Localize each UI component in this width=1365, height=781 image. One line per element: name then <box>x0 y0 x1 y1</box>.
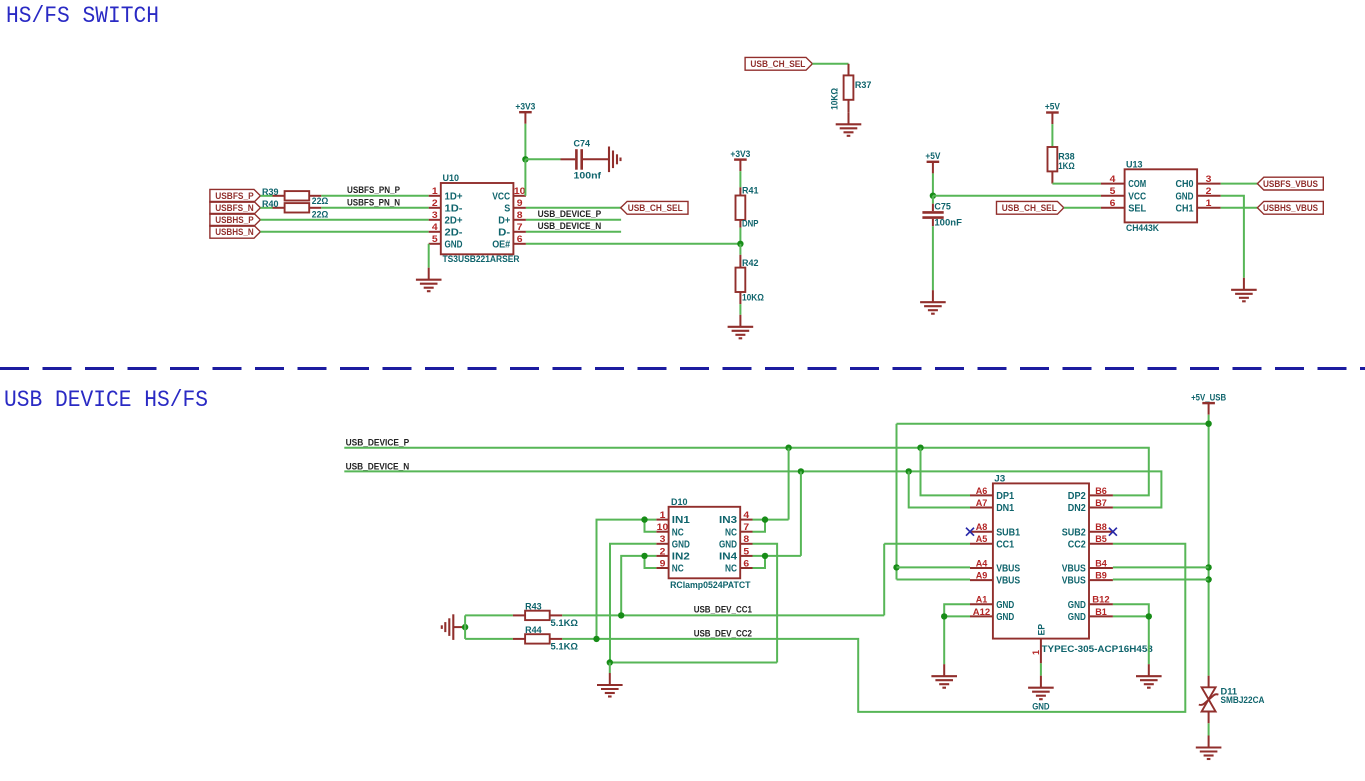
wire to A9 VBUS <box>897 579 971 581</box>
resistor R37 <box>844 75 854 99</box>
connector J3 body TYPEC-305-ACP16H458 <box>993 483 1089 638</box>
resistor R39 right lead <box>309 195 321 197</box>
capacitor C75 <box>922 212 943 217</box>
J3 pin B8 SUB2 <box>1062 522 1113 538</box>
resistor R39 left lead <box>273 195 285 197</box>
svg-text:2: 2 <box>660 546 666 556</box>
svg-text:A7: A7 <box>976 498 988 508</box>
U13 pin 1 CH1 <box>1176 198 1221 214</box>
hierarchical label USBFS_N <box>210 201 261 214</box>
wire <box>932 173 934 195</box>
hierarchical label USB_CH_SEL at R37 <box>745 57 812 70</box>
svg-text:GND: GND <box>996 600 1014 611</box>
diode D11 bottom lead <box>1208 712 1210 724</box>
IC U10 body TS3USB221ARSER <box>441 183 514 254</box>
svg-text:+3V3: +3V3 <box>730 149 750 160</box>
J3 pin A6 DP1 <box>970 486 1015 502</box>
svg-text:5.1KΩ: 5.1KΩ <box>551 618 579 629</box>
junction <box>593 636 599 642</box>
svg-text:3: 3 <box>660 534 666 544</box>
junction <box>607 659 613 665</box>
wire <box>524 124 526 160</box>
wire USB_DEV_CC1 <box>562 614 884 616</box>
svg-text:HS/FS SWITCH: HS/FS SWITCH <box>6 3 159 30</box>
svg-text:100nf: 100nf <box>574 171 602 182</box>
power +3V3 above U10 <box>515 101 535 123</box>
svg-text:SMBJ22CA: SMBJ22CA <box>1221 695 1265 706</box>
wire IN2 to CC1 <box>621 556 656 616</box>
wire D10 pin10 NC hook <box>645 520 657 532</box>
wire <box>526 207 621 209</box>
svg-text:VBUS: VBUS <box>996 576 1020 587</box>
hierarchical label USBHS_VBUS <box>1257 201 1323 214</box>
resistor R42 top lead <box>739 255 741 268</box>
wire D10 GND right <box>753 544 778 663</box>
wire USB_DEVICE_N to DN2 <box>344 471 1161 507</box>
svg-text:5: 5 <box>1110 186 1116 196</box>
ground below J3 left <box>931 664 957 688</box>
svg-text:R37: R37 <box>855 80 872 91</box>
wire <box>739 304 741 315</box>
U10 pin 9 S <box>504 198 526 214</box>
J3 pin A8 SUB1 <box>970 522 1021 538</box>
ground below U13 <box>1231 278 1257 302</box>
wire IN3 <box>753 519 789 521</box>
svg-text:GND: GND <box>672 539 690 550</box>
resistor R40 <box>285 203 310 212</box>
svg-text:9: 9 <box>660 558 666 568</box>
ground below D10 <box>597 673 623 697</box>
svg-text:GND: GND <box>445 239 463 250</box>
resistor R41 top lead <box>739 187 741 195</box>
wire +5V_USB vertical <box>1208 415 1210 676</box>
wire to B9 VBUS <box>1113 579 1209 581</box>
hierarchical label USB_CH_SEL at U10 <box>621 201 688 214</box>
wire <box>739 244 741 255</box>
svg-text:B4: B4 <box>1095 558 1107 568</box>
junction <box>906 468 912 474</box>
D10 pin 9 NC <box>656 558 684 574</box>
svg-text:B5: B5 <box>1095 534 1107 544</box>
svg-text:USBHS_VBUS: USBHS_VBUS <box>1263 203 1318 214</box>
svg-text:U10: U10 <box>443 173 460 184</box>
resistor R37 bottom lead <box>848 100 850 113</box>
svg-text:NC: NC <box>672 564 684 575</box>
wire D10 pin9 NC hook <box>645 556 657 568</box>
svg-text:10: 10 <box>657 522 669 532</box>
ground left of R43 R44 <box>442 614 454 640</box>
svg-text:SUB1: SUB1 <box>996 527 1020 538</box>
wire <box>1064 207 1101 209</box>
wire <box>739 228 741 244</box>
svg-text:DN2: DN2 <box>1068 503 1086 514</box>
ground below R42 <box>728 315 754 339</box>
svg-text:TYPEC-305-ACP16H458: TYPEC-305-ACP16H458 <box>1042 644 1154 655</box>
wire VBUS A-side vertical <box>896 424 898 580</box>
svg-text:R42: R42 <box>742 258 759 269</box>
svg-text:B6: B6 <box>1095 486 1107 496</box>
svg-text:3: 3 <box>1206 174 1212 184</box>
diode D11 top lead <box>1208 676 1210 688</box>
no-connect SUB2 <box>1109 528 1117 536</box>
ground stub <box>453 626 465 628</box>
svg-text:U13: U13 <box>1126 160 1143 171</box>
junction <box>798 468 804 474</box>
junction <box>618 612 624 618</box>
U13 pin 5 VCC <box>1101 186 1146 202</box>
wire <box>1221 196 1244 278</box>
ground below J3 right <box>1136 664 1162 688</box>
junction <box>1205 576 1211 582</box>
wire <box>739 171 741 187</box>
svg-text:D+: D+ <box>498 215 510 226</box>
svg-text:+5V: +5V <box>1045 102 1061 113</box>
IC U13 body CH443K <box>1125 169 1198 222</box>
wire +5V to U13 VCC <box>933 195 1101 197</box>
wire <box>321 207 428 209</box>
J3 pin A12 GND <box>970 607 1014 623</box>
wire D10 GND left <box>610 544 656 663</box>
svg-text:8: 8 <box>517 210 523 220</box>
svg-text:B12: B12 <box>1092 595 1109 605</box>
svg-text:USB DEVICE HS/FS: USB DEVICE HS/FS <box>4 387 208 414</box>
D10 pin 8 GND <box>719 534 753 550</box>
wire <box>944 615 970 617</box>
D10 pin 4 IN3 <box>719 510 753 526</box>
wire IN3 vertical <box>788 448 790 520</box>
wire <box>321 195 428 197</box>
wire <box>1113 615 1149 617</box>
J3 pin B4 VBUS <box>1062 558 1113 574</box>
wire <box>932 196 934 204</box>
svg-text:7: 7 <box>517 222 523 232</box>
capacitor C74 left lead <box>561 158 576 160</box>
resistor R37 top lead <box>848 64 850 76</box>
J3 EP pad pin <box>1031 623 1048 663</box>
svg-text:100nF: 100nF <box>934 218 962 229</box>
power +5V above R38 <box>1045 102 1061 124</box>
U10 pin 7 D- <box>498 222 526 238</box>
U10 pin 6 OE# <box>492 234 526 250</box>
svg-text:CH1: CH1 <box>1176 203 1194 214</box>
dashed section separator line <box>0 367 1365 370</box>
resistor R42 <box>736 268 746 292</box>
ground below D11 <box>1196 736 1222 760</box>
svg-text:9: 9 <box>517 198 523 208</box>
D10 pin 6 NC <box>725 558 753 574</box>
resistor R41 <box>736 196 746 220</box>
svg-text:SUB2: SUB2 <box>1062 527 1086 538</box>
wire B12 B1 GND tie <box>1113 604 1149 664</box>
svg-text:R40: R40 <box>262 199 279 210</box>
svg-text:2: 2 <box>1206 186 1212 196</box>
resistor R42 bottom lead <box>739 292 741 304</box>
svg-text:1D-: 1D- <box>445 203 463 214</box>
hierarchical label USBHS_N <box>210 225 261 238</box>
wire to DN1 <box>909 471 970 507</box>
J3 pin A7 DN1 <box>970 498 1015 514</box>
resistor R39 <box>285 191 310 200</box>
svg-text:7: 7 <box>743 522 749 532</box>
junction <box>1146 613 1152 619</box>
power +5V above C75 <box>925 151 941 173</box>
junction <box>785 445 791 451</box>
D10 pin 5 IN4 <box>719 546 753 562</box>
U10 pin 10 VCC <box>492 186 526 202</box>
svg-text:6: 6 <box>743 558 749 568</box>
wire <box>465 614 513 616</box>
ground below C75 <box>920 290 946 314</box>
diode D11 TVS SMBJ22CA <box>1199 687 1219 711</box>
svg-text:CH443K: CH443K <box>1126 223 1159 234</box>
resistor R38 <box>1048 147 1058 171</box>
svg-text:VBUS: VBUS <box>996 564 1020 575</box>
svg-text:+5V: +5V <box>925 151 941 162</box>
svg-text:5: 5 <box>432 234 438 244</box>
svg-text:22Ω: 22Ω <box>312 196 329 207</box>
junction <box>893 564 899 570</box>
resistor R44 left lead <box>513 638 525 640</box>
svg-text:R41: R41 <box>742 186 759 197</box>
svg-text:DP2: DP2 <box>1068 491 1086 502</box>
svg-text:COM: COM <box>1128 179 1146 190</box>
svg-text:GND: GND <box>1176 191 1194 202</box>
svg-text:NC: NC <box>672 527 684 538</box>
resistor R44 <box>525 634 550 643</box>
capacitor C75 bottom lead <box>932 219 934 226</box>
svg-text:VBUS: VBUS <box>1062 564 1086 575</box>
resistor R40 left lead <box>273 207 285 209</box>
D10 pin 2 IN2 <box>656 546 690 562</box>
svg-text:S: S <box>504 203 510 214</box>
svg-text:USB_DEVICE_N: USB_DEVICE_N <box>538 221 602 232</box>
wire D10 pin6 NC hook <box>753 556 766 568</box>
wire <box>1052 183 1101 185</box>
U13 pin 2 GND <box>1176 186 1221 202</box>
wire OE# <box>526 243 741 245</box>
wire <box>464 615 466 639</box>
J3 pin B6 DP2 <box>1068 486 1113 502</box>
svg-text:USBFS_N: USBFS_N <box>215 203 254 214</box>
svg-text:USB_CH_SEL: USB_CH_SEL <box>628 203 683 214</box>
wire <box>932 226 934 290</box>
svg-text:10: 10 <box>514 186 526 196</box>
svg-text:J3: J3 <box>994 474 1005 485</box>
wire +5V_USB horizontal <box>897 423 1209 425</box>
diode array D10 body RClamp0524PATCT <box>669 507 741 579</box>
svg-text:1: 1 <box>1206 198 1212 208</box>
wire <box>1208 723 1210 735</box>
wire <box>1221 207 1258 209</box>
U10 pin 3 2D+ <box>429 210 463 226</box>
D10 pin 10 NC <box>656 522 684 538</box>
no-connect SUB1 <box>966 528 974 536</box>
J3 pin A1 GND <box>970 595 1014 611</box>
U10 pin 4 2D- <box>429 222 463 238</box>
wire D10 pin7 NC hook <box>753 520 766 532</box>
svg-text:D10: D10 <box>671 497 688 508</box>
svg-text:NC: NC <box>725 564 737 575</box>
hierarchical label USBHS_P <box>210 213 261 226</box>
junction <box>1205 421 1211 427</box>
svg-text:R43: R43 <box>525 602 542 613</box>
wire IN4 vertical <box>800 471 802 556</box>
wire CC1 vertical <box>883 544 885 616</box>
svg-text:CH0: CH0 <box>1176 179 1194 190</box>
svg-text:IN3: IN3 <box>719 515 738 526</box>
svg-text:B9: B9 <box>1095 571 1107 581</box>
svg-text:GND: GND <box>1032 701 1049 712</box>
capacitor C74 right lead <box>583 158 609 160</box>
wire <box>465 638 513 640</box>
svg-text:3: 3 <box>432 210 438 220</box>
wire <box>812 63 848 65</box>
U13 pin 6 SEL <box>1101 198 1146 214</box>
hierarchical label USBFS_P <box>210 189 261 202</box>
wire <box>1221 183 1258 185</box>
ground below U10 <box>416 268 442 292</box>
wire USBHS_P <box>260 219 428 221</box>
wire <box>1040 663 1042 675</box>
U10 pin 8 D+ <box>498 210 526 226</box>
resistor R41 bottom lead <box>739 220 741 228</box>
svg-text:R39: R39 <box>262 187 279 198</box>
junction <box>737 241 743 247</box>
D10 pin 1 IN1 <box>656 510 690 526</box>
J3 pin A4 VBUS <box>970 558 1020 574</box>
svg-text:A5: A5 <box>976 534 988 544</box>
wire <box>526 231 621 233</box>
svg-text:VBUS: VBUS <box>1062 576 1086 587</box>
svg-text:GND: GND <box>719 539 737 550</box>
junction <box>641 553 647 559</box>
capacitor C74 <box>576 149 581 170</box>
svg-text:1: 1 <box>1031 650 1041 655</box>
svg-text:USB_DEVICE_P: USB_DEVICE_P <box>538 209 602 220</box>
capacitor C75 top lead <box>932 204 934 211</box>
svg-text:DN1: DN1 <box>996 503 1014 514</box>
svg-text:DP1: DP1 <box>996 491 1014 502</box>
U10 pin 1 1D+ <box>429 186 463 202</box>
svg-text:B7: B7 <box>1095 498 1107 508</box>
svg-text:OE#: OE# <box>492 239 510 250</box>
junction <box>762 553 768 559</box>
svg-text:RClamp0524PATCT: RClamp0524PATCT <box>670 580 751 591</box>
svg-text:IN1: IN1 <box>672 515 691 526</box>
wire <box>1051 124 1053 147</box>
wire <box>428 244 430 268</box>
svg-text:USBFS_P: USBFS_P <box>215 191 254 202</box>
svg-text:A8: A8 <box>976 522 988 532</box>
svg-text:5: 5 <box>743 546 749 556</box>
svg-text:R44: R44 <box>525 625 542 636</box>
svg-text:GND: GND <box>1068 600 1086 611</box>
svg-text:A1: A1 <box>976 595 988 605</box>
hierarchical label USB_CH_SEL at U13 <box>997 201 1064 214</box>
U13 pin 4 COM <box>1101 174 1146 190</box>
junction <box>917 445 923 451</box>
svg-text:1: 1 <box>432 186 438 196</box>
wire <box>526 219 621 221</box>
svg-text:10KΩ: 10KΩ <box>830 88 841 110</box>
svg-text:10KΩ: 10KΩ <box>742 292 764 303</box>
J3 pin B1 GND <box>1068 607 1113 623</box>
svg-text:1: 1 <box>660 510 666 520</box>
svg-text:A12: A12 <box>973 607 990 617</box>
svg-text:CC1: CC1 <box>996 539 1014 550</box>
svg-text:USBHS_N: USBHS_N <box>215 227 254 238</box>
svg-text:USBHS_P: USBHS_P <box>215 215 254 226</box>
resistor R40 right lead <box>309 207 321 209</box>
svg-text:B8: B8 <box>1095 522 1107 532</box>
wire A1 A12 GND tie <box>944 604 970 664</box>
svg-text:A4: A4 <box>976 558 988 568</box>
svg-text:6: 6 <box>1110 198 1116 208</box>
wire IN1 to CC2 <box>597 520 657 639</box>
svg-text:4: 4 <box>743 510 750 520</box>
svg-text:4: 4 <box>432 222 439 232</box>
svg-text:6: 6 <box>517 234 523 244</box>
U10 pin 2 1D- <box>429 198 463 214</box>
svg-text:2D+: 2D+ <box>445 215 463 226</box>
junction <box>762 516 768 522</box>
wire D10 GND bottom <box>610 662 777 664</box>
svg-text:USB_CH_SEL: USB_CH_SEL <box>1002 203 1057 214</box>
resistor R44 right lead <box>550 638 563 640</box>
resistor R43 left lead <box>513 614 525 616</box>
svg-text:+5V_USB: +5V_USB <box>1191 392 1226 403</box>
wire <box>524 159 526 196</box>
svg-text:TS3USB221ARSER: TS3USB221ARSER <box>443 254 520 265</box>
svg-text:USBFS_PN_N: USBFS_PN_N <box>347 197 400 208</box>
svg-text:C74: C74 <box>574 139 591 150</box>
junction <box>462 624 468 630</box>
junction <box>941 613 947 619</box>
J3 pin B7 DN2 <box>1068 498 1113 514</box>
J3 pin B5 CC2 <box>1068 534 1113 550</box>
svg-text:GND: GND <box>1068 612 1086 623</box>
wire to B4 VBUS <box>1113 566 1209 568</box>
svg-text:IN4: IN4 <box>719 552 738 563</box>
J3 pin B12 GND <box>1068 595 1113 611</box>
D10 pin 3 GND <box>656 534 690 550</box>
svg-text:CC2: CC2 <box>1068 539 1086 550</box>
svg-text:D-: D- <box>498 227 510 238</box>
J3 pin A9 VBUS <box>970 571 1020 587</box>
resistor R43 right lead <box>550 614 563 616</box>
wire <box>260 207 272 209</box>
U13 pin 3 CH0 <box>1176 174 1221 190</box>
svg-text:2: 2 <box>432 198 438 208</box>
svg-text:A9: A9 <box>976 571 988 581</box>
svg-text:4: 4 <box>1110 174 1117 184</box>
svg-text:8: 8 <box>743 534 749 544</box>
svg-text:USB_CH_SEL: USB_CH_SEL <box>750 59 805 70</box>
wire USB_DEV_CC2 to CC2 pin <box>562 544 1185 712</box>
svg-text:+3V3: +3V3 <box>515 101 535 112</box>
power +3V3 above R41 <box>730 149 750 171</box>
svg-text:A6: A6 <box>976 486 988 496</box>
svg-text:5.1KΩ: 5.1KΩ <box>551 642 579 653</box>
wire USBHS_N <box>260 231 428 233</box>
wire <box>525 158 560 160</box>
svg-text:USBFS_VBUS: USBFS_VBUS <box>1263 179 1319 190</box>
J3 pin B9 VBUS <box>1062 571 1113 587</box>
resistor R38 bottom lead <box>1051 171 1053 183</box>
svg-text:2D-: 2D- <box>445 227 463 238</box>
junction <box>522 156 528 162</box>
svg-text:USBFS_PN_P: USBFS_PN_P <box>347 185 400 196</box>
